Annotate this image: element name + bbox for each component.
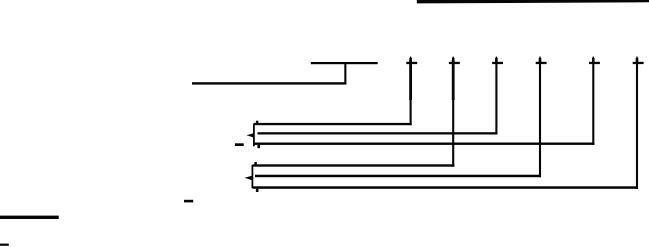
top border rule: [417, 0, 649, 3]
bottom-left dash: [0, 244, 9, 246]
terminal pin 2: [449, 57, 460, 65]
wire from terminal 5 down to lamp 1 bottom: [592, 60, 594, 145]
lamp 2 bottom lead wire: [253, 186, 638, 189]
terminal pin 3: [492, 57, 503, 65]
lamp 1 top lead wire: [254, 123, 412, 125]
wire from terminal 4 down to lamp 2 middle: [539, 60, 541, 177]
bottom-left rule line: [0, 216, 59, 219]
lamp 1 pin arrow: [247, 133, 254, 137]
terminal pin 4: [536, 57, 547, 65]
terminal pin 5: [589, 57, 600, 65]
wire: input lead upper segment: [311, 62, 378, 64]
lamp 1 middle lead wire: [258, 132, 498, 134]
wire: input lead lower segment: [192, 82, 346, 84]
terminal pin 1: [406, 57, 417, 65]
terminal pin 6: [633, 57, 644, 65]
lamp 1 end cap: [253, 121, 260, 149]
mark: dash below lamp 2: [184, 200, 193, 203]
lamp 2 pin arrow: [245, 176, 252, 181]
wire from terminal 1 down to lamp 1 top: [409, 60, 412, 125]
wire from terminal 3 down to lamp 1 middle: [495, 60, 497, 135]
wire: input lead riser: [344, 62, 346, 84]
lamp 2 middle lead wire: [255, 175, 541, 178]
wire from terminal 6 down to lamp 2 bottom: [636, 60, 638, 189]
lamp 2 top lead wire: [253, 164, 455, 166]
mark: dash left of lamp 1: [235, 143, 244, 146]
wire from terminal 2 down to lamp 2 top: [452, 60, 455, 167]
lamp 1 bottom lead wire: [254, 143, 594, 145]
lamp 2 end cap: [252, 162, 259, 192]
